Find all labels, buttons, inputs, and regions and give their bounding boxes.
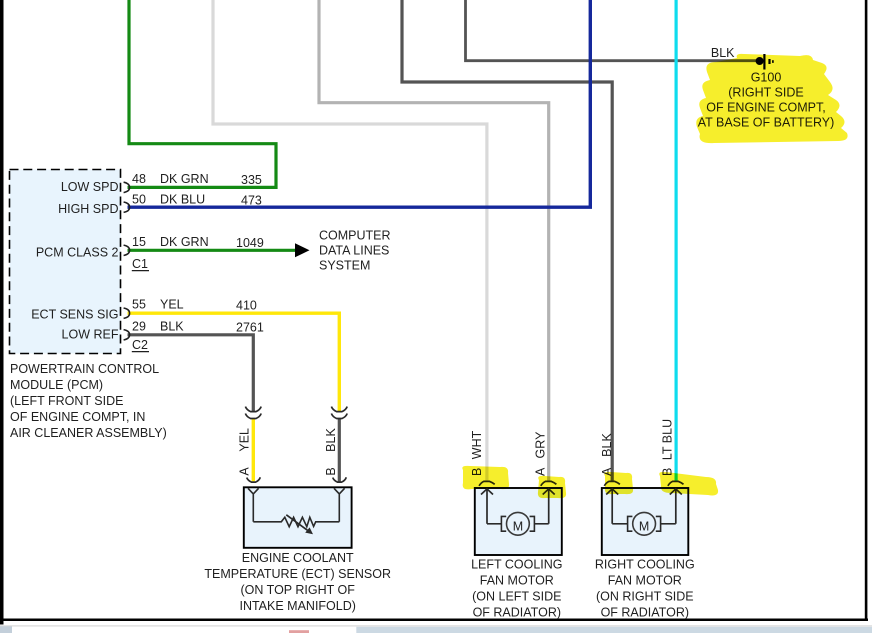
label COMPUTER DATA LINES SYSTEM <box>319 229 391 273</box>
svg-text:M: M <box>639 519 649 533</box>
wire GRY (left fan pin A feeder) <box>319 0 549 481</box>
svg-text:BLK: BLK <box>160 319 184 333</box>
svg-text:COMPUTER: COMPUTER <box>319 229 391 243</box>
pin 55 row labels <box>132 298 257 313</box>
pin 50 connector hook <box>124 202 130 212</box>
svg-text:29: 29 <box>132 319 146 333</box>
left fan pin B arrow <box>481 489 493 524</box>
svg-text:BLK: BLK <box>324 428 338 452</box>
pin 29 connector hook <box>124 330 130 340</box>
wire end arch at right fan pin B <box>668 481 684 486</box>
svg-text:LT BLU: LT BLU <box>660 419 674 460</box>
svg-text:M: M <box>513 519 523 533</box>
svg-text:AIR CLEANER ASSEMBLY): AIR CLEANER ASSEMBLY) <box>10 426 167 440</box>
pin 48 connector hook <box>124 182 130 192</box>
PCM caption <box>10 362 167 440</box>
svg-text:A: A <box>237 467 251 476</box>
connector C1 label <box>132 257 149 271</box>
svg-text:OF RADIATOR): OF RADIATOR) <box>473 605 561 619</box>
wire end arch at left fan pin A <box>541 481 557 486</box>
PCM box (powertrain control module) <box>10 170 121 354</box>
left cooling fan motor box <box>475 488 562 555</box>
inline connector on YEL/BLK left drop <box>245 407 261 419</box>
svg-text:(LEFT FRONT SIDE: (LEFT FRONT SIDE <box>10 394 123 408</box>
ECT pin B receptacle Y <box>334 488 345 522</box>
highlight over right fan pin B <box>659 472 718 496</box>
browser chrome bottom strip <box>0 625 872 633</box>
wire BLK lower to ECT pin B <box>338 419 341 482</box>
ECT sensor box <box>244 487 352 548</box>
page right border <box>865 0 868 621</box>
svg-text:C2: C2 <box>132 338 148 352</box>
svg-text:DK GRN: DK GRN <box>160 172 209 186</box>
svg-text:1049: 1049 <box>236 236 264 250</box>
ground G100 symbol <box>756 54 773 70</box>
svg-text:LOW SPD: LOW SPD <box>61 180 119 194</box>
svg-text:PCM CLASS 2: PCM CLASS 2 <box>36 246 119 260</box>
right fan pin A arrow <box>606 489 618 524</box>
right fan motor M2 <box>612 512 676 535</box>
svg-text:FAN MOTOR: FAN MOTOR <box>480 573 554 587</box>
svg-text:RIGHT COOLING: RIGHT COOLING <box>595 557 695 571</box>
highlighter marks (drawn over, multiply) <box>462 54 847 498</box>
svg-text:410: 410 <box>236 299 257 313</box>
svg-text:BLK: BLK <box>600 433 614 457</box>
pin 48 row labels <box>132 172 262 187</box>
svg-text:B: B <box>324 467 338 475</box>
pin 50 row labels <box>132 193 262 208</box>
svg-text:MODULE (PCM): MODULE (PCM) <box>10 378 103 392</box>
svg-text:GRY: GRY <box>534 431 548 459</box>
wire BLK (right fan pin A feeder) <box>402 0 612 481</box>
svg-text:LEFT COOLING: LEFT COOLING <box>471 557 562 571</box>
svg-text:50: 50 <box>132 193 146 207</box>
wire YEL 410 (pin 55 net, upper) <box>128 313 340 411</box>
wire WHT (left fan pin B feeder) <box>213 0 487 481</box>
svg-text:SYSTEM: SYSTEM <box>319 259 370 273</box>
left fan pin A arrow <box>543 489 555 524</box>
wire DK BLU 473 (pin 50 net) <box>128 0 591 207</box>
svg-text:DK BLU: DK BLU <box>160 193 205 207</box>
svg-text:LOW REF: LOW REF <box>62 327 119 341</box>
svg-text:INTAKE MANIFOLD): INTAKE MANIFOLD) <box>239 599 355 613</box>
ECT pin A receptacle Y <box>248 488 259 522</box>
wire end cup at ECT pin A <box>247 477 261 482</box>
svg-text:BLK: BLK <box>711 46 735 60</box>
wire end cup at ECT pin B <box>333 477 347 482</box>
svg-text:55: 55 <box>132 298 146 312</box>
right fan caption <box>595 557 695 619</box>
pin 29 row labels <box>132 319 264 334</box>
svg-text:POWERTRAIN CONTROL: POWERTRAIN CONTROL <box>10 362 159 376</box>
highlight over right fan pin A <box>604 472 633 494</box>
svg-text:C1: C1 <box>132 257 148 271</box>
svg-text:TEMPERATURE (ECT) SENSOR: TEMPERATURE (ECT) SENSOR <box>204 567 391 581</box>
svg-text:(ON LEFT SIDE: (ON LEFT SIDE <box>472 589 561 603</box>
arrowhead to computer data lines <box>295 243 310 257</box>
wire BLK ground feed <box>466 0 757 61</box>
svg-text:2761: 2761 <box>236 320 264 334</box>
svg-text:WHT: WHT <box>470 430 484 459</box>
svg-text:(ON RIGHT SIDE: (ON RIGHT SIDE <box>596 589 694 603</box>
svg-text:ECT SENS SIG: ECT SENS SIG <box>31 307 118 321</box>
svg-text:DK GRN: DK GRN <box>160 235 209 249</box>
svg-text:OF ENGINE COMPT, IN: OF ENGINE COMPT, IN <box>10 410 145 424</box>
right fan pin B arrow <box>670 489 682 524</box>
svg-text:48: 48 <box>132 172 146 186</box>
wire end arch at left fan pin B <box>479 481 495 486</box>
page bottom border <box>0 619 868 622</box>
svg-text:15: 15 <box>132 235 146 249</box>
svg-text:DATA LINES: DATA LINES <box>319 244 389 258</box>
svg-text:A: A <box>534 467 548 476</box>
highlight over G100 <box>696 54 847 143</box>
svg-text:YEL: YEL <box>237 428 251 452</box>
wire LT BLU (right fan pin B feeder) <box>674 0 677 481</box>
connector C2 label <box>132 338 149 352</box>
ECT caption <box>204 551 391 613</box>
svg-text:YEL: YEL <box>160 298 184 312</box>
svg-text:(ON TOP RIGHT OF: (ON TOP RIGHT OF <box>241 583 356 597</box>
wire BLK 2761 (pin 29 net, upper) <box>128 335 254 411</box>
right cooling fan motor box <box>602 488 689 555</box>
pin 15 row labels <box>132 235 264 250</box>
wire DK GRN 1049 (pin 15 to data lines arrow) <box>128 249 297 252</box>
svg-text:335: 335 <box>241 173 262 187</box>
page left border <box>0 0 4 625</box>
wire end arch at right fan pin A <box>604 481 620 486</box>
svg-text:473: 473 <box>241 194 262 208</box>
pin 15 connector hook <box>124 245 130 255</box>
highlight over left fan pin A <box>538 476 566 498</box>
left fan motor M1 <box>487 512 549 535</box>
svg-text:OF RADIATOR): OF RADIATOR) <box>601 605 689 619</box>
pin 55 connector hook <box>124 308 130 318</box>
left fan caption <box>471 557 562 619</box>
ECT internal thermistor resistor <box>253 515 339 535</box>
wire DK GRN 335 (pin 48 net) <box>128 0 277 187</box>
svg-text:ENGINE COOLANT: ENGINE COOLANT <box>242 551 354 565</box>
highlight over left fan pin B <box>462 466 509 490</box>
svg-text:FAN MOTOR: FAN MOTOR <box>608 573 682 587</box>
svg-text:HIGH SPD: HIGH SPD <box>58 202 118 216</box>
inline connector on BLK/YEL right drop <box>331 407 347 419</box>
wire YEL lower to ECT pin A <box>252 419 255 482</box>
label G100 caption <box>698 71 835 130</box>
